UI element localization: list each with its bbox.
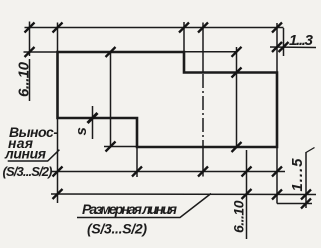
leader of left label [8, 150, 60, 161]
tick (283.5,47) [279, 42, 289, 52]
extension below right edge x=277 [276, 147, 278, 204]
tick (277,194.5) [272, 190, 282, 200]
center line inside part dash-dot x=203 [202, 74, 204, 147]
tick (236.5,72.5) [232, 68, 242, 78]
tick (306,194.5) [301, 190, 311, 200]
svg-text:линия: линия [4, 146, 46, 162]
tick (92.5,118) [88, 113, 98, 123]
short line closing 1...5 gap y=203.5 [277, 203, 312, 205]
top dimension line y=27.5 [25, 27, 284, 29]
tick (246.5,194) [242, 189, 252, 199]
extension below step corner x=137 [136, 147, 138, 177]
svg-text:1...3: 1...3 [289, 32, 314, 49]
center line below part x=203 [202, 147, 204, 177]
vertical dimension line x=236.5 [236, 47, 238, 147]
vertical dimension line x=110.5 [110, 51, 112, 147]
bottom dimension line 1 y=171.5 [51, 171, 285, 173]
extension line above left part edge x=57.5 [57, 23, 59, 53]
small vertical dim line x=246.5 (6...10 bottom), doubles as label underline [246, 150, 248, 239]
tick (203,171.5) [198, 167, 208, 177]
thin line right of step corner y=52 [184, 51, 238, 53]
tick (246.5,171.5) [242, 167, 252, 177]
svg-text:(S/3...S/2): (S/3...S/2) [3, 164, 53, 179]
oblique tick marks [25, 23, 312, 209]
tick (236.5,51.8) [232, 47, 242, 57]
tick (236.5,147) [232, 142, 242, 152]
tick (277,47) [272, 42, 282, 52]
svg-text:Размерная линия: Размерная линия [82, 201, 177, 217]
small dim line for s x=92.5 [92, 106, 94, 139]
svg-text:s: s [73, 127, 90, 135]
tick (57.5,27.5) [53, 23, 63, 33]
tick (277,171.5) [272, 167, 282, 177]
short vertical at end of top dim line x=283.5 [283, 28, 285, 56]
svg-text:6...10: 6...10 [16, 61, 33, 97]
svg-text:1...5: 1...5 [289, 158, 306, 192]
small hook at top of 1...5 underline [306, 148, 315, 153]
extension above right edge x=277 [276, 23, 278, 73]
tick (306,203.5) [301, 199, 311, 209]
underline of 1...3 label y=47 [270, 46, 316, 49]
extension line below left part edge x=57.5 [57, 118, 59, 203]
tick (110.5,146.5) [106, 142, 116, 152]
tick (110.5,52) [106, 47, 116, 57]
left extension of bottom edge y=146.5 [104, 146, 137, 148]
svg-text:6...10: 6...10 [231, 200, 247, 233]
tick (29.5,27.5) [25, 23, 35, 33]
tick (57.5,194) [53, 189, 63, 199]
bottom dimension line 2 y=194 [51, 193, 316, 196]
part outline (thick contour) [58, 52, 278, 147]
tick (277,27.5) [272, 23, 282, 33]
leader of bottom label [77, 194, 211, 218]
tick (29.5,52) [25, 47, 35, 57]
underline of 1...5 label x=306 [305, 152, 307, 208]
tick (203,27.5) [198, 23, 208, 33]
underline of left 6...10 label [29, 59, 31, 101]
svg-text:(S/3...S/2): (S/3...S/2) [87, 221, 147, 237]
tick (184,27.5) [179, 23, 189, 33]
tick (57.5,171.5) [53, 167, 63, 177]
extension above step x=184 [183, 22, 185, 52]
tick (137,171.5) [132, 167, 142, 177]
small vertical dim line x=29.5 (6...10 left) [29, 22, 31, 57]
center line above part x=203 [202, 23, 204, 73]
extension of top edge to left y=52 [24, 51, 58, 53]
